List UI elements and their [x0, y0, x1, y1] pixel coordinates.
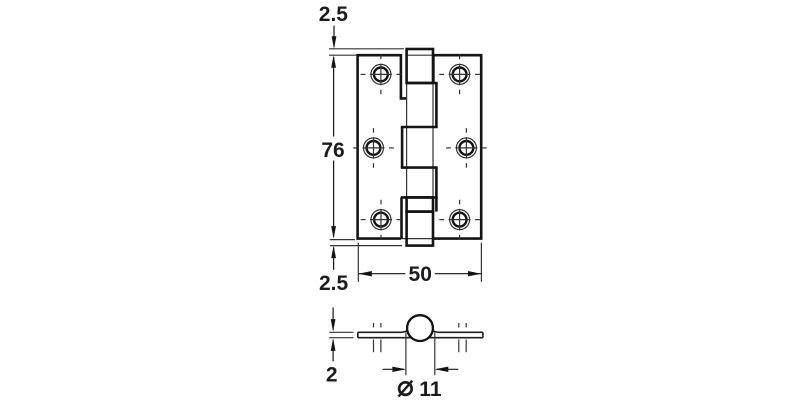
- dim 2: extension lines: [329, 331, 353, 333]
- label diameter symbol: [399, 381, 413, 397]
- left leaf lower edge: [400, 197, 403, 238]
- svg-text:2: 2: [326, 364, 338, 387]
- knuckle segment 2 right edge: [435, 83, 438, 127]
- screw hole top-right: [439, 55, 480, 95]
- knuckle joint line y=167.6: [401, 166, 438, 169]
- knuckle circle (section): [407, 315, 433, 341]
- leaf top line through knuckle: [406, 54, 435, 56]
- knuckle segment 3 left edge: [401, 127, 404, 168]
- svg-text:76: 76: [321, 139, 344, 162]
- leaf bottom line through knuckle: [401, 238, 434, 240]
- svg-text:50: 50: [409, 263, 432, 286]
- screw hole bottom-right: [439, 200, 480, 240]
- screw hole mid-right: [446, 128, 487, 168]
- dim 2.5 bottom: line + arrow: [331, 246, 336, 270]
- screw hole bottom-left: [361, 200, 402, 240]
- dim Ø11: extension lines: [405, 333, 407, 376]
- cross-section bar: [358, 330, 483, 338]
- screw hole top-left: [361, 55, 402, 95]
- screw hole mid-left: [353, 128, 394, 168]
- knuckle column thin edges: [406, 49, 408, 246]
- dim 50 line + arrows: [358, 271, 481, 276]
- dim Ø11: arrows: [383, 367, 459, 372]
- knuckle joint line y=127: [401, 126, 438, 129]
- knuckle joint line y=83: [407, 82, 438, 85]
- knuckle small segment y=197.4-211.6: [407, 197, 433, 211]
- svg-text:2.5: 2.5: [319, 3, 349, 26]
- extension line knuckle bottom: [330, 245, 402, 247]
- extension line leaf top: [329, 54, 356, 56]
- dim 2.5 top: line + arrow: [332, 26, 337, 49]
- left leaf: [358, 55, 401, 238]
- dim 50 extension lines: [357, 243, 359, 282]
- extension line knuckle top: [329, 48, 404, 50]
- knuckle bottom segment: [407, 212, 433, 246]
- left leaf right edge (upper): [401, 54, 407, 98]
- extension line leaf bottom (left of leaf): [330, 239, 355, 241]
- svg-text:2.5: 2.5: [319, 272, 349, 295]
- knuckle segment 4 right edge: [435, 168, 438, 212]
- screw hole tick marks: [374, 323, 467, 352]
- knuckle segment 1 (top): [407, 49, 433, 83]
- dim 76 line: [331, 55, 336, 238]
- right leaf: [433, 55, 481, 238]
- svg-text:11: 11: [419, 378, 442, 400]
- dim 2: arrows: [331, 308, 336, 362]
- knuckle joint line y=197.4: [401, 196, 438, 199]
